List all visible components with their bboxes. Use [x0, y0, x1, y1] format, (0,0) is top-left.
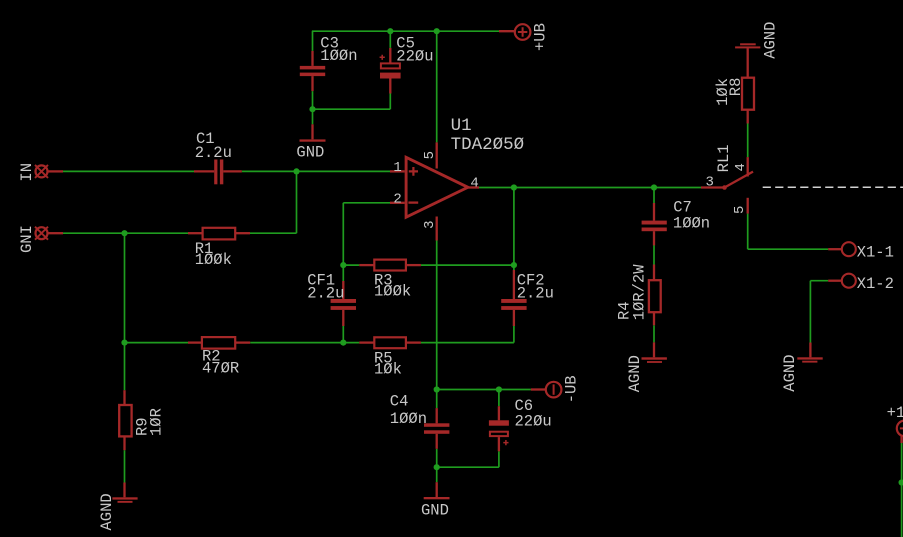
svg-text:1Øk: 1Øk [374, 361, 402, 379]
capacitor C4 [424, 423, 449, 434]
svg-text:+UB: +UB [532, 23, 550, 51]
ground GND top symbol [300, 139, 326, 141]
svg-text:R8: R8 [727, 78, 745, 97]
junction node output [511, 184, 517, 190]
relay RL1 contact pivot [722, 185, 727, 190]
pin stub R5 left [359, 341, 374, 343]
pin stub CF2 bottom [513, 310, 515, 326]
pin stub -UB supply [531, 388, 547, 390]
svg-text:1ØØn: 1ØØn [390, 410, 427, 428]
pin stub GND top [311, 124, 313, 139]
svg-text:AGND: AGND [781, 354, 799, 391]
wire relay pin5 down [747, 214, 749, 250]
pin stub R8 top to AGND [747, 48, 749, 77]
pin stub U1 pin2 [390, 202, 405, 204]
capacitor C3 [300, 66, 325, 76]
svg-text:RL1: RL1 [715, 144, 733, 172]
pin stub R8 bottom [747, 110, 749, 124]
pin stub R3 right [406, 264, 421, 266]
wire C5 column top [389, 31, 391, 48]
resistor R4 [649, 280, 661, 312]
resistor R2 [202, 337, 235, 349]
wire pin3 vertical [436, 241, 438, 390]
wire R9 bottom [124, 450, 126, 482]
junction node -UB C4 [434, 386, 440, 392]
wire U1 pin5 column [436, 31, 438, 142]
wire X1-2 vertical [809, 281, 811, 343]
pin stub +UB supply [499, 30, 515, 32]
wire C6 bottom [498, 451, 500, 467]
svg-text:3: 3 [422, 220, 438, 228]
svg-text:X1-2: X1-2 [857, 275, 894, 293]
wire GNI down vertical [124, 233, 126, 342]
wire C4 top [436, 390, 438, 409]
wire CF2 top [513, 265, 515, 270]
pin stub C1 left [194, 170, 214, 172]
pin stub U1 pin1 [390, 170, 405, 172]
pin stub relay RL1 pin5 [747, 198, 749, 214]
svg-text:2: 2 [393, 191, 401, 207]
pin stub CF2 top [513, 270, 515, 299]
junction node right edge [899, 479, 903, 485]
relay RL1 contact arm [725, 172, 754, 188]
junction node rail pin5 [434, 28, 440, 34]
pin stub C5 top [389, 48, 391, 63]
wire output to node B vertical [513, 188, 515, 266]
pin stub U1 pin3 [436, 217, 438, 241]
svg-text:GND: GND [421, 501, 449, 519]
junction node R2 left [121, 340, 127, 346]
wire IN right [242, 170, 390, 172]
pin stub R2 right [235, 341, 250, 343]
wire C3 column bottom [312, 91, 314, 109]
pin stub GND bottom [436, 482, 438, 497]
svg-text:1ØR: 1ØR [148, 408, 166, 436]
pin stub C3 top [311, 51, 313, 66]
wire R1 right [250, 232, 297, 234]
pin stub U1 pin5 [436, 142, 438, 168]
wire C5 column bottom [389, 94, 391, 110]
svg-text:5: 5 [422, 151, 438, 159]
wire CF1 bottom [342, 326, 344, 343]
pin stub R9 top [123, 390, 125, 405]
pin stub C7 top [653, 203, 655, 221]
wire R9 top [124, 343, 126, 391]
ground GND bottom symbol [424, 497, 450, 499]
svg-text:TDA2Ø5Ø: TDA2Ø5Ø [451, 135, 525, 155]
svg-text:AGND: AGND [626, 355, 644, 392]
wire R3 to node B [421, 264, 514, 266]
wire R2 to R5 [250, 342, 359, 344]
connector pin IN [35, 165, 48, 178]
junction node IN-C1 [293, 168, 299, 174]
wire GND top stub [312, 109, 314, 124]
pin stub R1 right [235, 232, 250, 234]
ground AGND symbol below R4 [642, 357, 667, 363]
svg-text:2.2u: 2.2u [195, 144, 232, 162]
pin stub AGND below X1-2 [809, 343, 811, 358]
pin stub R2 left [188, 341, 202, 343]
svg-text:4: 4 [733, 163, 749, 171]
svg-text:1ØØk: 1ØØk [195, 251, 232, 269]
pin stub X1-1 [828, 248, 842, 250]
wire R4 to AGND [653, 325, 655, 342]
pin stub right edge supply [900, 436, 902, 443]
wire GND bottom stub [436, 467, 438, 482]
svg-text:U1: U1 [451, 116, 472, 136]
svg-text:22Øu: 22Øu [396, 47, 433, 65]
wire CF2 bottom [513, 326, 515, 343]
pin stub R3 left [359, 264, 374, 266]
pin stub IN connector [47, 170, 63, 172]
pin stub X1-2 [828, 280, 842, 282]
junction node C4 bottom [434, 464, 440, 470]
junction node B R3 right [511, 262, 517, 268]
op-amp U1 triangle [406, 157, 468, 217]
wire output line [479, 187, 701, 189]
resistor R9 [119, 405, 131, 436]
capacitor C7 [642, 221, 667, 232]
pin stub C4 bottom [436, 434, 438, 449]
resistor R5 [374, 337, 406, 348]
ground AGND symbol below X1-2 [797, 357, 822, 362]
wire +UB top rail [312, 30, 499, 32]
svg-text:47ØR: 47ØR [202, 359, 239, 377]
resistor R1 [203, 228, 236, 240]
wire R5 right [421, 342, 514, 344]
op-amp U1 minus input mark [408, 201, 418, 203]
ground AGND symbol above R8 [735, 43, 760, 48]
relay RL1 actuator dashed line [763, 186, 903, 188]
wire C4 bottom [436, 449, 438, 467]
connector pin X1-1 [842, 242, 856, 256]
svg-text:AGND: AGND [98, 493, 116, 530]
connector pin X1-2 [842, 274, 856, 288]
junction node GNI [121, 230, 127, 236]
svg-text:+12V: +12V [887, 404, 903, 422]
supply +12V circle right edge [897, 421, 903, 437]
svg-text:X1-1: X1-1 [857, 244, 894, 262]
wire node A to R3 [343, 264, 359, 266]
wire pin2 horizontal [343, 202, 390, 204]
svg-text:1ØØk: 1ØØk [374, 282, 411, 300]
wire CF1 top [342, 265, 344, 281]
wire R2 line left [125, 342, 189, 344]
pin stub GNI connector [47, 232, 63, 234]
pin stub relay RL1 pin3 [701, 186, 725, 188]
capacitor C1 [214, 160, 223, 185]
pin stub CF1 bottom [342, 310, 344, 326]
pin stub R9 bottom [123, 436, 125, 450]
junction node C3 bottom [309, 106, 315, 112]
pin stub AGND below R9 [123, 483, 125, 498]
svg-text:5: 5 [732, 206, 748, 214]
svg-text:1ØØn: 1ØØn [320, 47, 357, 65]
junction node rail C5 [387, 28, 393, 34]
junction node CF1 bottom [340, 340, 346, 346]
wire C3-C5 bottom link [313, 108, 391, 110]
wire C6 top [498, 390, 500, 407]
svg-text:3: 3 [706, 175, 714, 191]
junction node C7 top [651, 184, 657, 190]
capacitor C6 polarized [489, 420, 509, 445]
pin stub C7 bottom [653, 231, 655, 245]
wire IN left [63, 170, 194, 172]
supply -UB circle [546, 382, 562, 398]
wire pin2 vertical [342, 203, 344, 265]
svg-text:2.2u: 2.2u [307, 285, 344, 303]
svg-text:1ØR/2W: 1ØR/2W [630, 264, 648, 321]
supply +UB circle [515, 24, 531, 40]
wire X1-2 horizontal [810, 280, 828, 282]
svg-text:GNI: GNI [18, 225, 36, 253]
svg-text:AGND: AGND [762, 22, 780, 59]
wire C4-C6 bottom link [437, 466, 499, 468]
pin stub C4 top [436, 408, 438, 423]
wire C7 top [653, 188, 655, 204]
pin stub C1 right [223, 170, 242, 172]
pin stub C6 bottom [498, 437, 500, 451]
wire IN to GNI vertical [296, 171, 298, 233]
svg-text:-UB: -UB [562, 375, 580, 403]
svg-text:GND: GND [296, 144, 324, 162]
junction node -UB C6 [496, 386, 502, 392]
capacitor CF2 [501, 299, 526, 310]
svg-text:1: 1 [393, 160, 401, 176]
wire to X1-1 [748, 248, 829, 250]
wire C3 column top [312, 31, 314, 51]
pin stub C3 bottom [311, 76, 313, 91]
pin stub R1 left [188, 232, 203, 234]
resistor R8 [742, 78, 754, 110]
resistor R3 [374, 260, 406, 271]
pin stub R5 right [406, 341, 421, 343]
pin stub R4 bottom [653, 312, 655, 325]
pin stub R4 top [653, 265, 655, 281]
op-amp U1 plus input mark [409, 167, 418, 176]
svg-text:C4: C4 [390, 392, 409, 410]
pin stub AGND below R4 [653, 342, 655, 357]
svg-text:2.2u: 2.2u [517, 285, 554, 303]
svg-text:IN: IN [18, 163, 36, 182]
pin stub C6 top [498, 406, 500, 420]
pin stub relay RL1 pin4 [747, 157, 749, 176]
pin stub U1 pin4 output [468, 186, 479, 188]
capacitor CF1 [331, 299, 356, 310]
pin stub CF1 top [342, 281, 344, 299]
capacitor C5 polarized [380, 55, 401, 79]
ground AGND symbol below R9 [112, 497, 137, 503]
junction node A R3 left [340, 262, 346, 268]
wire R8 to relay pin4 [747, 124, 749, 158]
pin stub C5 bottom [389, 79, 391, 94]
svg-text:22Øu: 22Øu [515, 413, 552, 431]
svg-text:1ØØn: 1ØØn [673, 215, 710, 233]
wire right edge vertical [901, 443, 903, 537]
wire C7 to R4 [653, 245, 655, 265]
wire -UB line [437, 389, 531, 391]
svg-text:4: 4 [470, 175, 478, 191]
wire GNI left [63, 232, 188, 234]
connector pin GNI [35, 227, 48, 240]
